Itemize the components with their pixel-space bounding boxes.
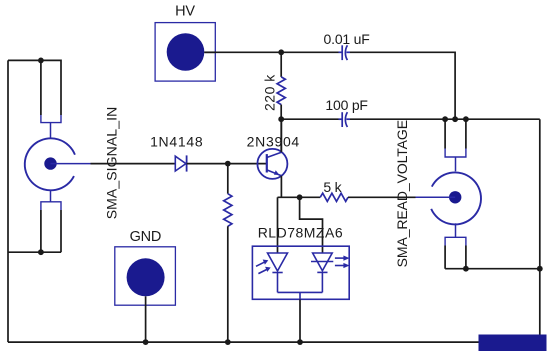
wire 100pF node [281,118,540,120]
SMA_SIGNAL_IN top pad (black part) + wire along top edge [8,60,61,115]
SMA connector SMA_READ_VOLTAGE body arc [431,172,481,224]
junction 0.01uF drop [452,116,458,122]
pad HV [155,23,215,82]
svg-text:220 k: 220 k [262,74,278,111]
svg-text:0.01 uF: 0.01 uF [324,31,370,47]
junction right rail / pad bottom [537,266,543,272]
svg-text:5 k: 5 k [323,179,342,195]
pad GND [115,247,176,305]
photodiode (left, arrows in) [268,253,288,292]
wire collector up [280,119,282,152]
SMA_READ_VOLTAGE top pad (black part) [445,119,466,148]
junction optocoupler / ground rail [297,339,303,345]
SMA_SIGNAL_IN bottom pad (black part) + wire along bottom edge [8,210,61,252]
wire left shield rail [7,60,9,342]
SMA_READ_VOLTAGE shield stub top [455,157,457,171]
wire emitter node to right diode (s-bend) [300,197,323,253]
wire HV to 0.01uF [204,52,455,119]
svg-text:1N4148: 1N4148 [150,133,203,149]
junction top pad left corner [442,116,448,122]
resistor pulldown (base to ground) [224,164,232,343]
laser diode (right, arrows out) [311,253,333,292]
junction collector / 220k / 100pF [278,116,284,122]
svg-text:100 pF: 100 pF [325,97,367,113]
wire emitter down [278,176,321,198]
wire SMA pin to diode [91,163,176,165]
junction diode / pulldown resistor [225,161,231,167]
SMA_SIGNAL_IN shield stub top [50,123,52,138]
SMA_READ_VOLTAGE shield stub bottom [455,223,457,237]
wire ground rail [8,341,540,343]
junction GND / ground rail [143,339,149,345]
capacitor 100pF [339,112,351,127]
laser output arrows [335,256,350,269]
SMA_READ_VOLTAGE center pin lead [416,196,456,198]
SMA connector SMA_SIGNAL_IN body arc [25,138,75,190]
optocoupler RLD78MZA6 box [252,246,349,299]
SMA_SIGNAL_IN bottom pad (blue part) [41,202,61,210]
wire diode to base node [187,163,267,165]
svg-text:HV: HV [175,4,195,20]
diode 1N4148 [175,155,186,171]
photodiode incoming light arrows [256,260,271,274]
svg-text:GND: GND [130,229,162,245]
wire 5k to SMA_READ_VOLTAGE [348,196,416,198]
SMA_SIGNAL_IN center pin lead [51,163,91,165]
junction HV line / 220k top [278,49,284,55]
SMA_READ_VOLTAGE center pin dot [449,191,461,203]
capacitor 0.01uF [339,45,351,60]
SMA_SIGNAL_IN top pad (blue part) [41,115,61,123]
junction top pad right corner [463,116,469,122]
SMA_READ_VOLTAGE bottom pad (black part) + wire to right rail [445,246,540,269]
SMA_READ_VOLTAGE bottom pad (blue part) [445,237,466,245]
wire GND pad drop [145,296,147,342]
svg-text:SMA_READ_VOLTAGE: SMA_READ_VOLTAGE [394,120,410,267]
wire emitter to left photodiode [277,197,279,253]
junction top pad corner [38,58,44,64]
junction emitter node [297,194,303,200]
junction pulldown / ground rail [225,339,231,345]
SMA_READ_VOLTAGE top pad (blue part) [445,149,466,158]
SMA_SIGNAL_IN center pin dot [44,157,56,169]
wire right rail [539,119,541,342]
SMA_SIGNAL_IN shield stub bottom [50,190,52,202]
resistor 220k [277,52,285,152]
overlay rectangle (artifact) bottom right [479,335,547,351]
transistor 2N3904 [257,149,287,179]
junction bottom pad corner [38,249,44,255]
resistor 5k [320,193,348,201]
wire optocoupler to ground rail [299,299,301,342]
HV pad lead wire [204,51,215,53]
svg-text:2N3904: 2N3904 [247,133,300,149]
optocoupler cathode join [278,292,323,299]
svg-text:RLD78MZA6: RLD78MZA6 [258,225,343,241]
junction bottom pad right corner [463,266,469,272]
